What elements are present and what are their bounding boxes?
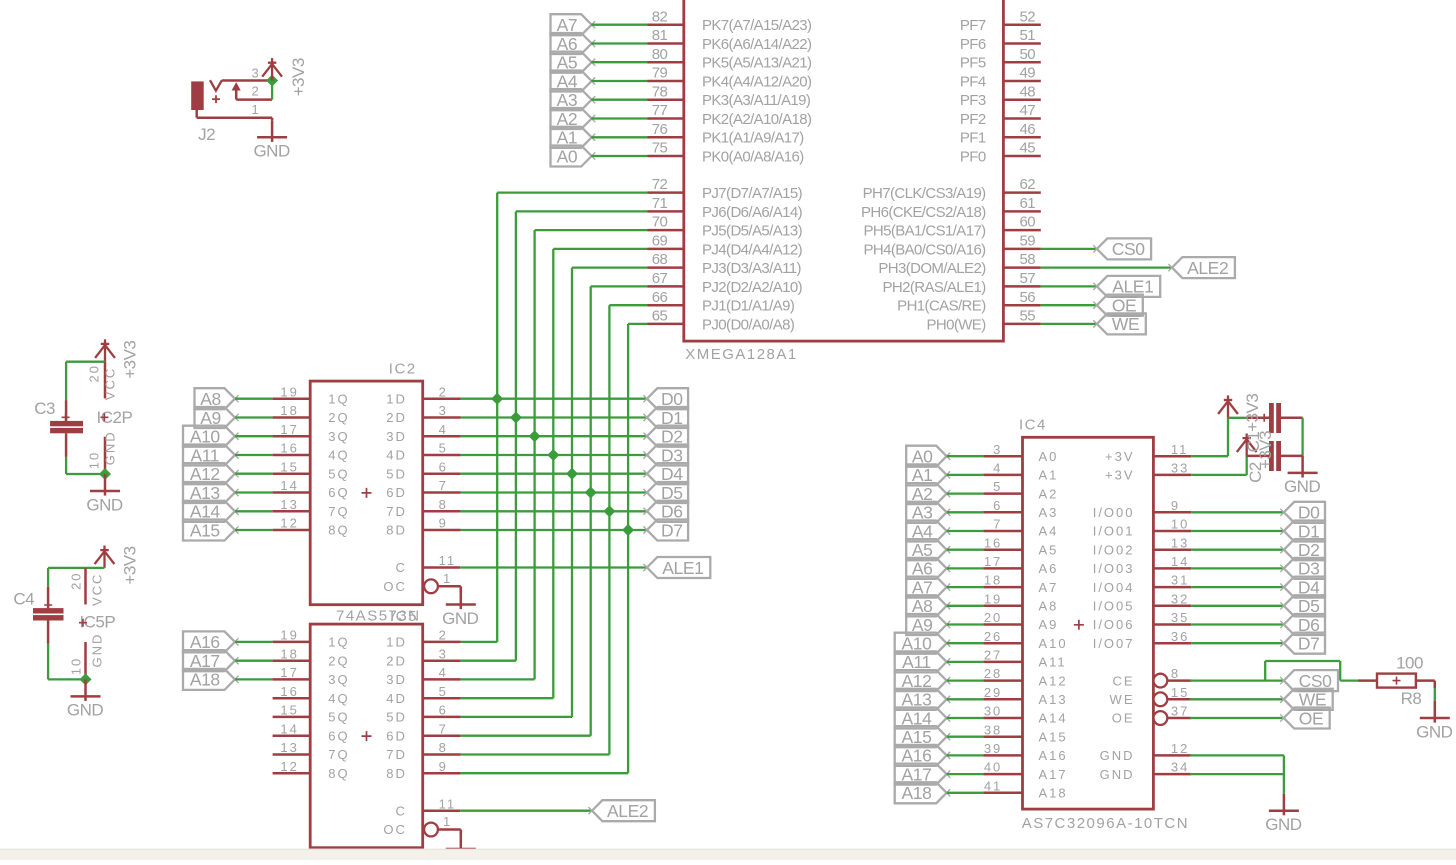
pin 4 3D — [423, 435, 461, 438]
ground GND (C1 C2) — [1288, 456, 1318, 478]
svg-text:11: 11 — [439, 796, 457, 811]
svg-text:72: 72 — [652, 176, 668, 193]
wire A8 — [947, 605, 984, 607]
net label A10 — [183, 426, 235, 447]
wire IC5 2D to bus — [461, 660, 516, 662]
wire OC to ground — [460, 586, 463, 592]
svg-text:52: 52 — [1020, 8, 1036, 25]
svg-text:GND: GND — [1100, 767, 1135, 782]
svg-text:4: 4 — [993, 461, 1002, 476]
pin 13 7Q — [273, 753, 311, 756]
svg-text:19: 19 — [280, 628, 298, 643]
net label D3 — [1284, 558, 1325, 579]
svg-text:3: 3 — [251, 66, 260, 81]
net label A15 — [183, 520, 235, 541]
svg-text:5D: 5D — [386, 466, 407, 481]
wire A4 to pin 79 — [591, 80, 647, 82]
pin 33 +3V — [1153, 474, 1191, 477]
wire IC5 4D to bus — [461, 697, 554, 699]
svg-text:GND: GND — [86, 495, 123, 514]
wire A10 — [947, 642, 984, 644]
net label A0 — [551, 146, 592, 167]
svg-text:PK4(A4/A12/A20): PK4(A4/A12/A20) — [702, 73, 812, 90]
ground GND (J2) — [257, 120, 287, 142]
pin 3 2D — [423, 659, 461, 662]
wire D3 row — [461, 454, 647, 456]
svg-text:10: 10 — [86, 451, 101, 469]
net label A1 — [551, 127, 592, 148]
svg-text:A7: A7 — [1039, 580, 1059, 595]
wire R8 to ground — [1434, 681, 1437, 688]
svg-text:+3V: +3V — [1105, 468, 1135, 483]
wire D5 row — [461, 491, 647, 493]
net label A4 — [906, 521, 946, 542]
wire A18 — [947, 792, 984, 794]
svg-text:2D: 2D — [386, 653, 407, 668]
pin 1 OC (inverted) — [424, 579, 438, 593]
net label ALE2 — [592, 800, 655, 821]
pin 40 A17 — [983, 773, 1022, 776]
svg-text:48: 48 — [1020, 83, 1036, 100]
wire bus vertical 7 — [627, 324, 629, 773]
wire A0 — [947, 455, 984, 457]
net label D3 — [647, 445, 688, 466]
net label A2 — [551, 108, 592, 129]
svg-text:20: 20 — [984, 610, 1002, 625]
capacitor C4 — [47, 587, 50, 608]
net label ALE1 — [647, 557, 710, 578]
svg-text:5D: 5D — [386, 710, 407, 725]
ground GND (IC4) — [1269, 794, 1299, 816]
svg-text:+3V: +3V — [1105, 449, 1135, 464]
wire +3V pin 33 — [1191, 474, 1247, 476]
svg-text:17: 17 — [984, 554, 1002, 569]
wire GND pin 34 — [1190, 773, 1284, 775]
junction GND (IC2P) — [99, 468, 111, 480]
svg-text:20: 20 — [86, 364, 101, 382]
capacitor C3 — [65, 400, 68, 421]
net label D0 — [647, 388, 688, 409]
svg-text:68: 68 — [652, 251, 668, 268]
net label A2 — [906, 483, 946, 504]
wire A15 — [947, 736, 984, 738]
svg-text:39: 39 — [984, 741, 1002, 756]
wire A17 — [947, 773, 984, 775]
svg-text:62: 62 — [1020, 176, 1036, 193]
net label D0 — [1284, 502, 1325, 523]
svg-text:34: 34 — [1171, 760, 1189, 775]
svg-text:I/O04: I/O04 — [1093, 580, 1135, 595]
net label A14 — [183, 501, 235, 522]
net label D4 — [1284, 577, 1325, 598]
pin 60 PH5(BA1/CS1/A17) — [1003, 229, 1040, 232]
net label D7 — [647, 520, 688, 541]
wire D6 — [1191, 623, 1284, 625]
svg-text:7: 7 — [993, 517, 1002, 532]
pin 80 PK5(A5/A13/A21) — [648, 61, 684, 64]
pin 69 PJ4(D4/A4/A12) — [648, 248, 684, 251]
wire GND vertical — [1283, 755, 1285, 793]
svg-text:OE: OE — [1112, 711, 1135, 726]
pin 18 A7 — [983, 586, 1022, 589]
svg-text:3Q: 3Q — [328, 672, 349, 687]
svg-text:1Q: 1Q — [328, 391, 349, 406]
svg-text:5: 5 — [993, 479, 1002, 494]
wire A1 — [947, 474, 984, 476]
svg-text:47: 47 — [1020, 102, 1036, 119]
pin 15 5Q — [273, 716, 311, 719]
svg-text:I/O00: I/O00 — [1093, 505, 1135, 520]
wire ALE1 — [1041, 285, 1097, 287]
svg-text:75: 75 — [652, 140, 668, 157]
pin 5 4D — [423, 454, 461, 457]
svg-text:2: 2 — [251, 83, 260, 98]
svg-text:6: 6 — [439, 459, 448, 474]
pin 62 PH7(CLK/CS3/A19) — [1003, 191, 1040, 194]
svg-text:XMEGA128A1: XMEGA128A1 — [685, 346, 798, 363]
wire A11 — [947, 661, 984, 663]
svg-text:I/O01: I/O01 — [1093, 524, 1135, 539]
svg-text:A8: A8 — [1039, 599, 1059, 614]
svg-text:A15: A15 — [1039, 729, 1068, 744]
wire D2 row — [461, 435, 647, 437]
svg-text:69: 69 — [652, 233, 668, 250]
svg-text:6D: 6D — [386, 728, 407, 743]
svg-text:ALE2: ALE2 — [607, 801, 648, 821]
net label A3 — [906, 502, 946, 523]
pin 8 7D — [423, 510, 461, 513]
svg-text:41: 41 — [984, 778, 1002, 793]
pin 12 8Q — [273, 772, 311, 775]
svg-text:PF4: PF4 — [960, 73, 986, 90]
svg-text:PF0: PF0 — [960, 148, 986, 165]
svg-text:81: 81 — [652, 27, 668, 44]
svg-text:32: 32 — [1171, 591, 1189, 606]
svg-text:4D: 4D — [386, 448, 407, 463]
IC IC5 body — [310, 624, 423, 848]
svg-text:OC: OC — [383, 579, 407, 594]
+3V3 supply (C1) — [1218, 395, 1238, 417]
wire CS0 from CE — [1190, 679, 1284, 681]
net label A4 — [551, 71, 592, 92]
svg-text:A0: A0 — [1039, 449, 1059, 464]
net label A10 — [895, 633, 947, 654]
net label A15 — [895, 726, 947, 747]
wire bus PJ1 horizontal — [609, 304, 647, 306]
pin 2 1D — [423, 641, 461, 644]
+3V3 supply (C2) — [1237, 434, 1257, 456]
wire bus PJ7 horizontal — [497, 191, 647, 193]
pin 12 GND — [1153, 754, 1191, 757]
pin 57 PH2(RAS/ALE1) — [1003, 285, 1040, 288]
svg-text:GND: GND — [89, 633, 104, 668]
svg-text:A18: A18 — [902, 783, 932, 803]
wire A2 — [947, 492, 984, 494]
pin 9 8D — [423, 772, 461, 775]
net label A3 — [551, 89, 592, 110]
svg-text:66: 66 — [652, 289, 668, 306]
svg-text:CS0: CS0 — [1112, 239, 1146, 259]
junction D5 — [585, 487, 597, 499]
svg-text:PK7(A7/A15/A23): PK7(A7/A15/A23) — [702, 17, 812, 34]
svg-text:14: 14 — [280, 478, 298, 493]
svg-text:6D: 6D — [386, 485, 407, 500]
net label A8 — [195, 388, 235, 409]
svg-text:12: 12 — [1171, 741, 1189, 756]
wire D0 row — [461, 398, 647, 400]
svg-text:A1: A1 — [1039, 468, 1059, 483]
net label A14 — [895, 708, 947, 729]
pin 2 — [236, 98, 272, 101]
net label D1 — [647, 407, 688, 428]
svg-text:19: 19 — [984, 591, 1002, 606]
svg-text:8D: 8D — [386, 523, 407, 538]
svg-text:13: 13 — [280, 740, 298, 755]
+3V3 supply (IC2P) — [95, 339, 115, 361]
svg-text:16: 16 — [280, 441, 298, 456]
wire OE from OE pin — [1190, 717, 1284, 719]
wire A2 to pin 77 — [591, 117, 647, 119]
wire D1 — [1191, 530, 1284, 532]
net label A18 — [183, 669, 235, 690]
svg-text:51: 51 — [1020, 27, 1036, 44]
wire A3 to pin 78 — [591, 99, 647, 101]
pin 5 4D — [423, 697, 461, 700]
svg-text:30: 30 — [984, 704, 1002, 719]
wire bus vertical 0 — [496, 193, 498, 642]
net label A8 — [906, 595, 946, 616]
pin 50 PF5 — [1003, 61, 1040, 64]
svg-text:80: 80 — [652, 46, 668, 63]
svg-text:IC2: IC2 — [389, 361, 417, 378]
net label CS0 — [1284, 670, 1338, 691]
net label A13 — [895, 689, 947, 710]
svg-text:18: 18 — [280, 646, 298, 661]
pin 19 1Q — [273, 397, 311, 400]
svg-text:PH1(CAS/RE): PH1(CAS/RE) — [897, 298, 986, 315]
wire C4 to GND — [47, 644, 49, 680]
pin 13 I/O02 — [1153, 548, 1191, 551]
net label A7 — [551, 14, 592, 35]
svg-text:15: 15 — [1171, 685, 1189, 700]
wire +3V pin 11 — [1191, 455, 1228, 457]
svg-text:PH4(BA0/CS0/A16): PH4(BA0/CS0/A16) — [863, 241, 986, 258]
svg-text:4D: 4D — [386, 691, 407, 706]
svg-text:I/O06: I/O06 — [1093, 617, 1135, 632]
wire D0 — [1191, 511, 1284, 513]
svg-text:70: 70 — [652, 214, 668, 231]
svg-text:6Q: 6Q — [328, 485, 349, 500]
svg-text:5Q: 5Q — [328, 466, 349, 481]
pin 13 7Q — [273, 510, 311, 513]
svg-text:IC4: IC4 — [1019, 417, 1047, 434]
pin 7 6D — [423, 491, 461, 494]
svg-text:PK2(A2/A10/A18): PK2(A2/A10/A18) — [702, 111, 812, 128]
wire IC5 1D to bus — [461, 641, 497, 643]
svg-text:PK3(A3/A11/A19): PK3(A3/A11/A19) — [702, 92, 811, 109]
pin 11 C — [423, 809, 461, 812]
pin 81 PK6(A6/A14/A22) — [648, 42, 684, 45]
svg-text:+3V3: +3V3 — [289, 58, 308, 96]
svg-text:A15: A15 — [190, 520, 220, 540]
wire A16 — [235, 641, 273, 643]
wire A0 to pin 75 — [591, 155, 647, 157]
svg-text:ALE2: ALE2 — [1187, 258, 1228, 278]
svg-text:A10: A10 — [1039, 636, 1068, 651]
svg-text:12: 12 — [280, 516, 298, 531]
svg-text:1Q: 1Q — [328, 635, 349, 650]
net label D6 — [647, 501, 688, 522]
svg-text:79: 79 — [652, 65, 668, 82]
net label A17 — [895, 764, 947, 785]
svg-text:10: 10 — [69, 657, 84, 675]
net label A5 — [906, 539, 946, 560]
wire C3 to GND — [65, 457, 67, 474]
J2 switch contact — [210, 80, 222, 91]
svg-text:4Q: 4Q — [328, 691, 349, 706]
pin 36 I/O07 — [1153, 642, 1191, 645]
svg-text:4: 4 — [439, 665, 448, 680]
pin 15 5Q — [273, 472, 311, 475]
svg-text:6: 6 — [439, 703, 448, 718]
pin 3 — [222, 79, 268, 82]
svg-text:8D: 8D — [386, 766, 407, 781]
svg-text:100: 100 — [1396, 653, 1423, 672]
svg-text:57: 57 — [1020, 270, 1036, 287]
svg-text:PJ6(D6/A6/A14): PJ6(D6/A6/A14) — [702, 204, 803, 221]
svg-text:PJ3(D3/A3/A11): PJ3(D3/A3/A11) — [702, 260, 801, 277]
wire CS0 — [1041, 248, 1097, 250]
pin 20 A9 — [983, 623, 1022, 626]
svg-text:78: 78 — [652, 83, 668, 100]
pin 4 A1 — [983, 474, 1022, 477]
pin 31 I/O04 — [1153, 586, 1191, 589]
pin 8 7D — [423, 753, 461, 756]
svg-text:A6: A6 — [1039, 561, 1059, 576]
wire pin2 to supply — [271, 85, 273, 100]
svg-text:A13: A13 — [1039, 692, 1068, 707]
svg-text:1: 1 — [443, 571, 452, 586]
svg-text:PJ4(D4/A4/A12): PJ4(D4/A4/A12) — [702, 241, 803, 258]
svg-text:A3: A3 — [1039, 505, 1059, 520]
pin 2 1D — [423, 397, 461, 400]
svg-text:10: 10 — [1171, 517, 1189, 532]
svg-text:A2: A2 — [1039, 486, 1059, 501]
svg-text:11: 11 — [439, 553, 457, 568]
wire A8 — [235, 398, 273, 400]
svg-text:PF3: PF3 — [960, 92, 986, 109]
pin 58 PH3(DOM/ALE2) — [1003, 266, 1040, 269]
svg-text:I/O07: I/O07 — [1093, 636, 1135, 651]
wire bus vertical 2 — [533, 230, 535, 679]
svg-text:40: 40 — [984, 760, 1002, 775]
net label A18 — [895, 782, 947, 803]
pin 68 PJ3(D3/A3/A11) — [648, 266, 684, 269]
svg-text:C: C — [396, 803, 407, 818]
svg-text:4: 4 — [439, 422, 448, 437]
junction D6 — [603, 505, 615, 517]
IC5P VCC pin 20 — [84, 568, 87, 605]
svg-text:C2: C2 — [1246, 462, 1265, 483]
svg-text:C4: C4 — [13, 590, 34, 609]
svg-text:R8: R8 — [1401, 689, 1422, 708]
pin 52 PF7 — [1003, 23, 1040, 26]
wire A13 — [235, 491, 273, 493]
ground GND (IC5 OC) — [446, 832, 476, 854]
svg-text:2: 2 — [439, 628, 448, 643]
net label ALE1 — [1097, 276, 1160, 297]
svg-text:3: 3 — [439, 646, 448, 661]
pin 49 PF4 — [1003, 80, 1040, 83]
wire D6 row — [461, 510, 647, 512]
net label A17 — [183, 650, 235, 671]
svg-text:76: 76 — [652, 121, 668, 138]
svg-text:65: 65 — [652, 308, 668, 325]
wire D2 — [1191, 549, 1284, 551]
pin 9 I/O00 — [1153, 511, 1191, 514]
pin 7 6D — [423, 734, 461, 737]
pin 17 A6 — [983, 567, 1022, 570]
pin 17 3Q — [273, 678, 311, 681]
svg-text:+3V3: +3V3 — [1243, 394, 1262, 432]
pin 4 3D — [423, 678, 461, 681]
wire IC5 3D to bus — [461, 678, 535, 680]
svg-text:3D: 3D — [386, 672, 407, 687]
net label WE — [1097, 313, 1146, 334]
svg-text:67: 67 — [652, 270, 668, 287]
net label OE — [1284, 708, 1330, 729]
svg-text:PH0(WE): PH0(WE) — [926, 316, 986, 333]
wire bus vertical 3 — [552, 249, 554, 698]
net label WE — [1284, 689, 1333, 710]
svg-text:14: 14 — [1171, 554, 1189, 569]
svg-text:8: 8 — [439, 740, 448, 755]
svg-text:C: C — [396, 560, 407, 575]
net label D5 — [647, 482, 688, 503]
svg-text:33: 33 — [1171, 461, 1189, 476]
pin 18 2Q — [273, 659, 311, 662]
pin 16 4Q — [273, 697, 311, 700]
net label D2 — [647, 426, 688, 447]
pin 19 A8 — [983, 605, 1022, 608]
wire IC5 8D to bus — [461, 772, 628, 774]
svg-text:OC: OC — [383, 822, 407, 837]
svg-text:2Q: 2Q — [328, 410, 349, 425]
pin 3 2D — [423, 416, 461, 419]
svg-text:D7: D7 — [661, 520, 683, 540]
wire OE — [1041, 304, 1097, 306]
wire ALE2 — [1041, 266, 1172, 268]
wire A5 — [947, 549, 984, 551]
pin 6 5D — [423, 472, 461, 475]
svg-text:VCC: VCC — [89, 573, 104, 606]
wire D4 row — [461, 473, 647, 475]
svg-text:58: 58 — [1020, 251, 1036, 268]
svg-text:15: 15 — [280, 459, 298, 474]
net label A6 — [551, 33, 592, 54]
svg-text:5Q: 5Q — [328, 710, 349, 725]
pin 9 8D — [423, 529, 461, 532]
svg-text:PF2: PF2 — [960, 111, 986, 128]
pin 15 WE (inverted) — [1154, 692, 1168, 706]
net label D1 — [1284, 521, 1325, 542]
svg-text:PF6: PF6 — [960, 36, 986, 53]
pin 59 PH4(BA0/CS0/A16) — [1003, 248, 1040, 251]
svg-text:A18: A18 — [190, 670, 220, 690]
J2 center pin arrow — [232, 82, 241, 90]
svg-text:29: 29 — [984, 685, 1002, 700]
IC5P GND pin 10 — [84, 642, 87, 679]
